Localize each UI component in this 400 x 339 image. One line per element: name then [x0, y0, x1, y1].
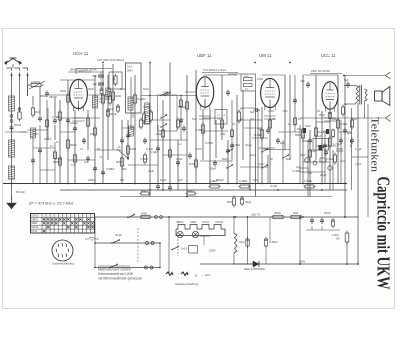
svg-text:50pF: 50pF: [90, 133, 96, 136]
svg-text:1MΩ: 1MΩ: [189, 162, 195, 166]
svg-text:5kΩ: 5kΩ: [227, 200, 232, 204]
svg-text:1MΩ: 1MΩ: [115, 94, 121, 98]
svg-text:0,1: 0,1: [99, 156, 103, 159]
svg-text:1MΩ: 1MΩ: [220, 133, 225, 136]
svg-text:mit Röhrenvoltmeter gemessen: mit Röhrenvoltmeter gemessen: [98, 277, 143, 281]
svg-text:25µF: 25µF: [263, 147, 270, 151]
svg-text:REC 225Z/180Ω: REC 225Z/180Ω: [244, 267, 265, 271]
svg-text:0,5: 0,5: [120, 178, 124, 182]
svg-text:0,5: 0,5: [71, 164, 75, 167]
svg-text:40µΩ: 40µΩ: [245, 143, 252, 147]
svg-text:0,5MΩ: 0,5MΩ: [140, 157, 148, 161]
svg-text:8µF: 8µF: [250, 118, 255, 121]
svg-text:25: 25: [298, 117, 301, 121]
svg-text:2µF: 2µF: [296, 166, 301, 169]
svg-text:20µF: 20µF: [239, 241, 245, 244]
svg-text:10kΩ: 10kΩ: [268, 109, 274, 113]
svg-text:10Ω: 10Ω: [293, 211, 298, 215]
svg-text:0,2MΩ: 0,2MΩ: [205, 141, 213, 145]
svg-text:5µF: 5µF: [258, 127, 263, 131]
svg-text:500pF: 500pF: [216, 178, 224, 182]
svg-text:UM11: UM11: [190, 221, 197, 224]
svg-text:25µF: 25µF: [300, 154, 306, 157]
svg-text:2kΩ: 2kΩ: [352, 117, 357, 121]
svg-text:0,10: 0,10: [127, 66, 132, 69]
svg-text:5µF: 5µF: [344, 78, 349, 82]
svg-text:220V: 220V: [209, 249, 216, 253]
svg-text:5000: 5000: [305, 125, 311, 128]
svg-text:20µF: 20µF: [258, 163, 264, 166]
svg-text:Sockelschaltung: Sockelschaltung: [52, 262, 74, 266]
svg-text:100pF: 100pF: [336, 149, 344, 153]
svg-text:1MΩ: 1MΩ: [196, 147, 202, 151]
svg-text:UM11: UM11: [31, 222, 38, 225]
svg-text:10µF: 10µF: [160, 178, 167, 182]
svg-text:C30kΩ: C30kΩ: [31, 80, 41, 84]
svg-text:46: 46: [272, 117, 275, 121]
svg-text:UCH11: UCH11: [215, 221, 224, 224]
svg-text:1MΩ: 1MΩ: [130, 147, 136, 151]
svg-text:UBF11: UBF11: [31, 218, 39, 221]
svg-text:LBV: 20 3V/6A: LBV: 20 3V/6A: [311, 69, 330, 73]
svg-text:5µF: 5µF: [280, 141, 285, 145]
svg-text:30kΩ: 30kΩ: [187, 189, 194, 193]
svg-text:3nF: 3nF: [283, 109, 288, 113]
svg-text:UCL11: UCL11: [31, 226, 39, 229]
svg-text:0,1MΩ: 0,1MΩ: [292, 169, 300, 173]
svg-text:4,7: 4,7: [50, 145, 54, 148]
svg-text:~110 7V: ~110 7V: [250, 213, 260, 217]
svg-text:30µF: 30µF: [106, 90, 112, 94]
svg-text:0,1MΩ: 0,1MΩ: [195, 128, 203, 132]
svg-text:I/V/I 2W/4 3V2 33mA: I/V/I 2W/4 3V2 33mA: [97, 58, 124, 62]
svg-text:(BV/ELT/2): (BV/ELT/2): [78, 70, 91, 74]
svg-text:2µF: 2µF: [84, 160, 89, 164]
svg-text:8µF: 8µF: [93, 74, 98, 78]
svg-text:0,1µF: 0,1µF: [55, 157, 62, 161]
svg-text:0,1µF: 0,1µF: [150, 150, 157, 154]
svg-text:100pF: 100pF: [70, 121, 78, 125]
svg-text:60: 60: [240, 117, 243, 121]
svg-text:25µF: 25µF: [319, 113, 325, 117]
svg-text:UCH 11: UCH 11: [73, 51, 89, 56]
svg-text:5000: 5000: [116, 160, 123, 164]
svg-text:8µF: 8µF: [286, 157, 291, 161]
svg-text:200pF: 200pF: [44, 137, 52, 141]
svg-text:2×0,4: 2×0,4: [181, 248, 188, 251]
svg-text:UBF11: UBF11: [176, 221, 184, 224]
svg-text:ZF = 473 kHz u. 20,7 MHz: ZF = 473 kHz u. 20,7 MHz: [28, 202, 73, 206]
svg-text:4Ω: 4Ω: [245, 89, 248, 91]
svg-text:150µF: 150µF: [209, 167, 217, 171]
svg-text:300Ω: 300Ω: [176, 157, 183, 161]
svg-text:400Ω: 400Ω: [274, 211, 281, 215]
svg-text:100kΩ: 100kΩ: [302, 139, 310, 143]
svg-text:300Ω: 300Ω: [143, 106, 149, 109]
svg-text:50pF: 50pF: [143, 87, 149, 91]
svg-text:30µF: 30µF: [310, 149, 317, 153]
svg-text:8µF: 8µF: [250, 110, 255, 114]
svg-text:20: 20: [317, 109, 320, 113]
svg-text:90kΩ: 90kΩ: [141, 189, 148, 193]
svg-text:1kΩ: 1kΩ: [250, 153, 255, 157]
svg-text:28µF: 28µF: [108, 108, 114, 111]
svg-text:60kΩ: 60kΩ: [297, 128, 303, 131]
svg-text:Meßinstrument 333Ω/V: Meßinstrument 333Ω/V: [98, 268, 132, 272]
svg-text:0,1MΩ: 0,1MΩ: [52, 115, 60, 119]
svg-text:2kΩ: 2kΩ: [35, 110, 40, 114]
svg-text:0,5µF: 0,5µF: [355, 163, 362, 166]
svg-text:5µF: 5µF: [192, 118, 197, 121]
svg-text:50kΩ: 50kΩ: [70, 143, 77, 147]
svg-text:25µF: 25µF: [245, 200, 252, 204]
svg-text:2×50µF: 2×50µF: [269, 241, 278, 244]
svg-text:30pF: 30pF: [88, 87, 94, 91]
svg-text:0,2: 0,2: [178, 143, 182, 146]
svg-text:40kΩ: 40kΩ: [141, 212, 147, 216]
svg-text:50kΩ: 50kΩ: [222, 157, 228, 161]
svg-text:4µF: 4µF: [93, 82, 98, 86]
svg-text:230µF: 230µF: [88, 178, 96, 182]
svg-text:250pF: 250pF: [49, 95, 57, 99]
svg-text:47kΩ: 47kΩ: [257, 78, 263, 81]
svg-text:1MΩ: 1MΩ: [244, 76, 249, 78]
svg-text:0,5µF: 0,5µF: [330, 117, 337, 121]
svg-text:2W: 2W: [336, 238, 340, 241]
svg-text:UBF 11: UBF 11: [197, 53, 212, 58]
svg-text:UCL 11: UCL 11: [321, 53, 336, 58]
svg-text:4µF: 4µF: [178, 178, 183, 182]
svg-text:25µF: 25µF: [148, 169, 155, 173]
svg-text:0,1µF: 0,1µF: [355, 147, 362, 151]
svg-text:5µF: 5µF: [301, 79, 306, 83]
svg-text:Netzanschließung: Netzanschließung: [175, 282, 199, 286]
svg-text:0,1µF: 0,1µF: [270, 184, 277, 188]
svg-text:32 kF: 32 kF: [115, 233, 122, 237]
svg-text:5kΩ: 5kΩ: [156, 132, 161, 136]
svg-text:0,1µF: 0,1µF: [315, 135, 322, 138]
svg-text:25µF: 25µF: [324, 211, 331, 215]
svg-text:300: 300: [122, 167, 127, 171]
svg-text:→ 117V: → 117V: [201, 273, 210, 277]
svg-text:5000: 5000: [60, 89, 66, 93]
svg-text:7L2 3W/L2 1,3mA: 7L2 3W/L2 1,3mA: [203, 68, 226, 72]
svg-text:0,5MΩ: 0,5MΩ: [106, 167, 114, 171]
svg-text:UCH11: UCH11: [31, 214, 39, 217]
svg-text:30µF: 30µF: [110, 112, 117, 116]
svg-text:2B44: 2B44: [127, 70, 133, 73]
svg-text:90=135Ω: 90=135Ω: [200, 235, 210, 238]
svg-text:Klemmenwerte bei UKW: Klemmenwerte bei UKW: [98, 272, 134, 276]
svg-text:1kΩ: 1kΩ: [340, 160, 345, 163]
svg-text:0,3MΩ: 0,3MΩ: [239, 179, 247, 183]
svg-text:0,1: 0,1: [308, 171, 312, 175]
svg-text:20pF: 20pF: [120, 87, 126, 91]
svg-text:25µF: 25µF: [320, 173, 327, 177]
svg-text:Capriccio mit UKW: Capriccio mit UKW: [374, 177, 394, 290]
svg-text:5000: 5000: [33, 133, 39, 136]
svg-text:UM 11: UM 11: [259, 53, 272, 58]
svg-text:8×1mF: 8×1mF: [16, 190, 25, 194]
svg-text:100: 100: [253, 178, 258, 182]
svg-text:4,7kpF: 4,7kpF: [333, 142, 342, 146]
svg-text:UCL11: UCL11: [202, 221, 210, 224]
svg-text:50kΩ: 50kΩ: [295, 133, 302, 137]
svg-text:50: 50: [97, 147, 100, 151]
svg-text:70pF: 70pF: [163, 91, 170, 95]
svg-text:Telefunken: Telefunken: [369, 117, 380, 172]
svg-text:UY11: UY11: [31, 230, 37, 233]
svg-text:500Ω: 500Ω: [14, 123, 22, 127]
